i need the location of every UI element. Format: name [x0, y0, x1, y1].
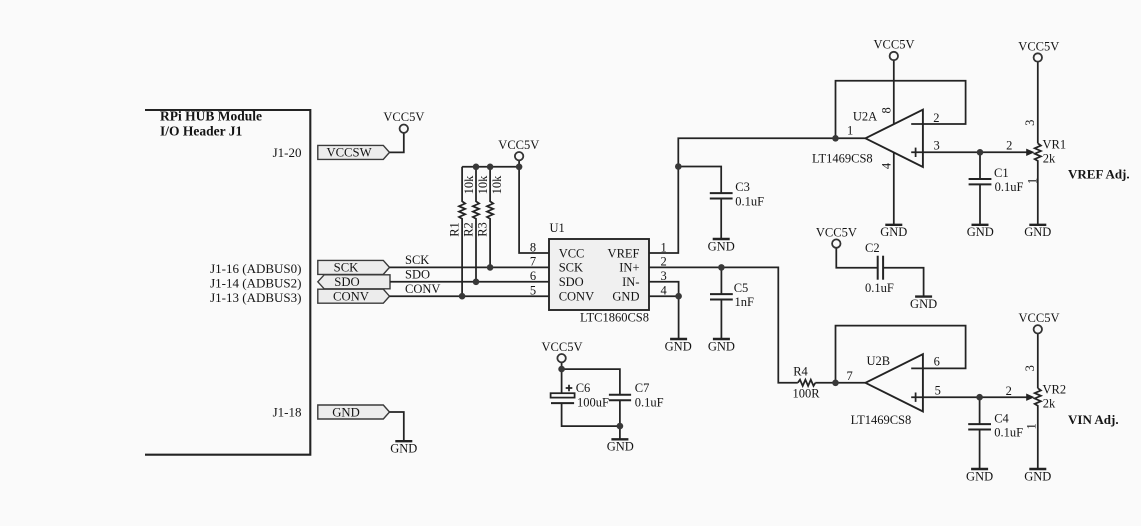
- svg-text:U1: U1: [550, 221, 565, 235]
- wire C4 to ground: [979, 430, 981, 470]
- junction pin3/C1: [977, 149, 984, 156]
- svg-text:GND: GND: [612, 290, 639, 304]
- junction pin3/pin4: [675, 293, 682, 300]
- svg-text:LT1469CS8: LT1469CS8: [851, 413, 912, 427]
- wire U2A pin3 to VR1: [911, 151, 1027, 153]
- svg-text:0.1uF: 0.1uF: [735, 195, 764, 209]
- wire U2A output: [836, 137, 866, 139]
- capacitor C1: [969, 178, 992, 180]
- wiper arrow VR1: [1026, 149, 1034, 156]
- svg-text:GND: GND: [910, 297, 937, 311]
- wire C7 bottom: [619, 400, 621, 439]
- svg-text:100R: 100R: [793, 386, 821, 400]
- wire VCC to C2: [836, 248, 877, 268]
- svg-text:GND: GND: [708, 339, 735, 353]
- ground below pin4: [670, 338, 687, 340]
- ground below C1: [972, 224, 989, 226]
- svg-text:2k: 2k: [1043, 152, 1056, 166]
- svg-text:5: 5: [935, 384, 941, 398]
- svg-text:SDO: SDO: [405, 268, 430, 282]
- ground below U2A: [885, 224, 902, 226]
- svg-text:SDO: SDO: [334, 275, 359, 289]
- junction R1 to CONV: [459, 293, 466, 300]
- capacitor C2: [877, 256, 879, 280]
- pullup rail: [462, 166, 519, 168]
- svg-text:C6: C6: [576, 381, 591, 395]
- potentiometer VR2: [1029, 334, 1046, 470]
- svg-text:8: 8: [530, 240, 536, 254]
- svg-text:100uF: 100uF: [577, 395, 609, 409]
- ground symbol below GND flag: [395, 440, 412, 442]
- svg-text:2: 2: [1006, 138, 1012, 152]
- wire R4 to U2B output node: [815, 382, 865, 384]
- potentiometer VR1: [1029, 62, 1046, 225]
- svg-text:10k: 10k: [490, 175, 504, 195]
- svg-text:GND: GND: [708, 239, 735, 253]
- capacitor C4: [968, 423, 991, 425]
- power VCC5V at VCCSW: [400, 125, 408, 133]
- junction R2 to SDO: [473, 279, 480, 286]
- svg-text:6: 6: [934, 355, 940, 369]
- svg-text:CONV: CONV: [333, 290, 370, 304]
- svg-text:GND: GND: [1024, 225, 1051, 239]
- svg-text:R1: R1: [448, 222, 462, 237]
- wire VCCSW to power: [390, 133, 404, 152]
- svg-text:10k: 10k: [462, 175, 476, 195]
- svg-text:GND: GND: [1024, 469, 1051, 483]
- wire VREF pin1 up and across to U2A: [649, 138, 836, 253]
- svg-text:J1-14 (ADBUS2): J1-14 (ADBUS2): [210, 276, 301, 291]
- power VCC5V above VR2: [1034, 325, 1042, 333]
- svg-text:C5: C5: [734, 281, 749, 295]
- wire GND flag down: [390, 412, 404, 441]
- svg-text:J1-20: J1-20: [273, 145, 302, 160]
- svg-text:2k: 2k: [1043, 397, 1056, 411]
- wire C2 to ground: [883, 268, 924, 297]
- svg-text:GND: GND: [390, 442, 417, 456]
- wire C3 to ground: [720, 199, 722, 240]
- plus sign U2A: [915, 148, 917, 157]
- svg-text:J1-13 (ADBUS3): J1-13 (ADBUS3): [210, 290, 301, 305]
- ground below C2: [915, 295, 932, 297]
- svg-text:C7: C7: [635, 381, 650, 395]
- flag VCCSW: [318, 145, 390, 159]
- wire VCC column to U1 pin 8: [519, 161, 549, 254]
- wire C6 bottom rail: [562, 404, 620, 426]
- svg-text:C4: C4: [994, 412, 1009, 426]
- svg-text:0.1uF: 0.1uF: [994, 425, 1023, 439]
- wire U2A pin8 to power: [893, 60, 895, 124]
- junction R3 to SCK: [487, 264, 494, 271]
- junction U2A output: [832, 135, 839, 142]
- flag GND: [318, 405, 390, 419]
- flag CONV: [318, 289, 390, 303]
- junction pin5/C4: [976, 394, 983, 401]
- wire C6 top: [561, 369, 563, 393]
- svg-text:GND: GND: [607, 440, 634, 454]
- svg-text:IN+: IN+: [619, 261, 639, 275]
- junction on rail at R3: [487, 164, 494, 171]
- svg-text:SCK: SCK: [405, 253, 429, 267]
- svg-text:J1-18: J1-18: [273, 405, 302, 420]
- decoupling C2: [836, 248, 932, 297]
- svg-text:3: 3: [933, 139, 939, 153]
- wire U2B pin5 to VR2: [911, 396, 1027, 398]
- svg-text:5: 5: [530, 284, 536, 298]
- wire CONV net: [390, 295, 550, 297]
- capacitor C3: [710, 192, 733, 194]
- flag SCK: [318, 260, 390, 274]
- svg-text:7: 7: [530, 255, 536, 269]
- wire U2A feedback loop: [836, 81, 966, 139]
- svg-text:VCC5V: VCC5V: [816, 225, 857, 239]
- svg-text:VCC5V: VCC5V: [542, 340, 583, 354]
- plus sign of C6: [566, 385, 573, 392]
- svg-text:CONV: CONV: [405, 282, 440, 296]
- svg-text:VCC5V: VCC5V: [498, 138, 539, 152]
- decoupling block C6 C7: [551, 363, 632, 440]
- svg-text:LTC1860CS8: LTC1860CS8: [580, 311, 649, 325]
- junction on rail at VCC column: [516, 164, 523, 171]
- svg-text:0.1uF: 0.1uF: [995, 180, 1024, 194]
- op-amp U2B: [865, 354, 923, 411]
- svg-text:3: 3: [1023, 120, 1037, 126]
- svg-text:1: 1: [1025, 178, 1039, 184]
- capacitor C7: [609, 394, 631, 396]
- capacitor C6 positive plate: [551, 393, 575, 397]
- power VCC5V above VR1: [1034, 53, 1042, 61]
- svg-text:VREF Adj.: VREF Adj.: [1068, 166, 1130, 181]
- junction VCC/C6: [558, 366, 565, 373]
- svg-text:R3: R3: [476, 222, 490, 237]
- IC U1 body: [549, 239, 649, 310]
- power VCC5V above pullups: [515, 152, 523, 160]
- wire VCC to C6/C7 rail: [562, 363, 620, 395]
- flag SDO: [318, 275, 390, 289]
- svg-text:C1: C1: [994, 166, 1009, 180]
- junction on rail at R2: [473, 164, 480, 171]
- ground below C4: [971, 468, 988, 470]
- resistor R2: [473, 167, 479, 282]
- VR2 resistor body: [1035, 388, 1041, 469]
- wire GND pin4: [649, 295, 679, 297]
- junction IN+/C5: [718, 264, 725, 271]
- svg-text:R2: R2: [462, 222, 476, 237]
- svg-text:SCK: SCK: [559, 261, 583, 275]
- svg-text:VCC5V: VCC5V: [1018, 39, 1059, 53]
- wire C5 to ground: [720, 300, 722, 340]
- svg-text:I/O Header J1: I/O Header J1: [160, 123, 242, 138]
- svg-text:VCC5V: VCC5V: [1019, 311, 1060, 325]
- svg-text:GND: GND: [967, 225, 994, 239]
- svg-text:VR2: VR2: [1043, 383, 1067, 397]
- svg-text:GND: GND: [665, 339, 692, 353]
- svg-text:SDO: SDO: [559, 275, 584, 289]
- svg-text:VREF: VREF: [608, 246, 640, 260]
- svg-text:6: 6: [530, 269, 536, 283]
- svg-text:SCK: SCK: [334, 261, 360, 275]
- plus sign U2B: [915, 393, 917, 402]
- svg-text:VIN Adj.: VIN Adj.: [1068, 412, 1119, 427]
- svg-text:R4: R4: [793, 364, 808, 378]
- svg-text:C2: C2: [865, 241, 880, 255]
- wire U2A pin4 to ground: [893, 153, 895, 225]
- wire U2B feedback loop: [836, 326, 966, 383]
- resistor R3: [487, 167, 493, 268]
- svg-text:VCC: VCC: [559, 246, 585, 260]
- svg-text:2: 2: [933, 111, 939, 125]
- capacitor C4 branch: [968, 397, 991, 469]
- capacitor C6 lower plate: [551, 402, 574, 404]
- svg-text:U2B: U2B: [866, 354, 890, 368]
- svg-text:VCCSW: VCCSW: [326, 146, 371, 160]
- wire IN+ pin2 across and down to R4: [649, 267, 798, 382]
- svg-text:U2A: U2A: [853, 109, 877, 123]
- op-amp U2A: [865, 110, 923, 167]
- svg-text:VR1: VR1: [1043, 137, 1067, 151]
- svg-text:GND: GND: [332, 405, 360, 419]
- power VCC5V above C6: [557, 354, 565, 362]
- ground below C6 C7: [611, 438, 628, 440]
- svg-text:0.1uF: 0.1uF: [865, 281, 894, 295]
- wiper arrow VR2: [1026, 394, 1034, 401]
- ground below VR2: [1029, 468, 1046, 470]
- wire C3 branch: [678, 167, 721, 194]
- ground below C3: [713, 238, 730, 240]
- svg-text:LT1469CS8: LT1469CS8: [812, 152, 873, 166]
- capacitor C5: [710, 293, 733, 295]
- svg-text:1: 1: [1024, 423, 1038, 429]
- resistor R4: [798, 380, 816, 386]
- power VCC5V above C2: [832, 239, 840, 247]
- svg-text:8: 8: [880, 107, 894, 113]
- ground below VR1: [1029, 224, 1046, 226]
- svg-text:10k: 10k: [476, 175, 490, 195]
- svg-text:4: 4: [880, 162, 894, 169]
- svg-text:1: 1: [847, 123, 853, 137]
- svg-text:IN-: IN-: [622, 275, 639, 289]
- svg-text:J1-16 (ADBUS0): J1-16 (ADBUS0): [210, 261, 301, 276]
- svg-text:RPi HUB Module: RPi HUB Module: [160, 109, 262, 124]
- svg-text:GND: GND: [880, 225, 907, 239]
- svg-text:C3: C3: [735, 180, 750, 194]
- resistor R1: [459, 167, 465, 296]
- svg-text:1nF: 1nF: [735, 295, 755, 309]
- svg-text:0.1uF: 0.1uF: [635, 395, 664, 409]
- svg-text:GND: GND: [966, 469, 993, 483]
- wire C1 to ground: [979, 184, 981, 224]
- svg-text:VCC5V: VCC5V: [383, 110, 424, 124]
- svg-text:VCC5V: VCC5V: [874, 38, 915, 52]
- junction U2B output: [832, 380, 839, 387]
- junction VREF/C3: [675, 163, 682, 170]
- svg-text:2: 2: [1006, 384, 1012, 398]
- svg-text:3: 3: [1023, 365, 1037, 371]
- connector J1 sheet box: [145, 110, 310, 455]
- wire C5 branch: [720, 267, 722, 294]
- svg-text:7: 7: [846, 369, 852, 383]
- wire SCK net: [390, 266, 550, 268]
- wire SDO net: [390, 281, 549, 283]
- VR1 resistor body: [1035, 143, 1041, 224]
- junction bottom rail C7: [617, 423, 624, 430]
- ground below C5: [713, 338, 730, 340]
- svg-text:CONV: CONV: [559, 290, 594, 304]
- wire IN- pin3 down to ground: [649, 282, 679, 339]
- capacitor C1 branch: [969, 152, 992, 225]
- power VCC5V above U2A: [890, 52, 898, 60]
